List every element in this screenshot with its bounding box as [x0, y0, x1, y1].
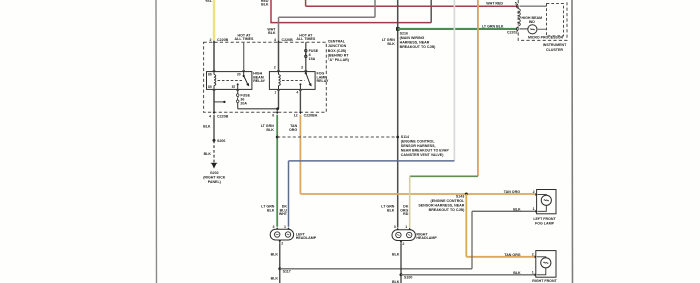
- svg-text:HARNESS, NEAR: HARNESS, NEAR: [400, 41, 430, 45]
- contact blade of high beam relay pins 30-87: [237, 72, 250, 90]
- svg-text:BLK: BLK: [203, 125, 211, 129]
- wire WHT RED high beam indicator feed to instrument cluster: [306, 0, 518, 6]
- svg-text:C220B: C220B: [282, 38, 294, 42]
- svg-text:2: 2: [210, 38, 212, 42]
- svg-text:1: 1: [405, 225, 407, 229]
- svg-text:BLK: BLK: [271, 276, 279, 280]
- node S100 splice: [400, 273, 413, 279]
- label HOT AT ALL TIMES left: [235, 34, 255, 42]
- svg-text:C220B: C220B: [217, 38, 229, 42]
- svg-text:TAN ORG: TAN ORG: [504, 253, 521, 257]
- svg-text:BLK: BLK: [204, 152, 212, 156]
- svg-text:BLK: BLK: [267, 208, 275, 212]
- svg-text:"A" PILLAR): "A" PILLAR): [328, 58, 350, 62]
- svg-text:3: 3: [301, 66, 303, 70]
- wire BLK run from S117 to left fog lamp return: [280, 268, 472, 270]
- lamp high beam indicator: [520, 16, 547, 34]
- svg-text:TAN ORG: TAN ORG: [504, 190, 521, 194]
- wire yellow coil lead inside CJB: [213, 42, 215, 71]
- wire WHT BLK from relay coil up and right to top edge: [267, 0, 375, 42]
- wire TAN ORG branch from S143 down to right fog lamp: [466, 194, 536, 257]
- wire YEL feed from top to CJB connector 2: [205, 0, 214, 40]
- svg-text:BLK: BLK: [261, 2, 269, 6]
- label LT GRN BLK at right headlamp: [381, 205, 395, 213]
- wire right page border line: [571, 0, 574, 283]
- svg-text:C2202: C2202: [507, 31, 518, 35]
- wire BLK run from S100 to right fog lamp return: [401, 274, 536, 276]
- svg-text:S143: S143: [456, 194, 464, 198]
- svg-text:S117: S117: [283, 270, 291, 274]
- fuse 8 15A: [305, 49, 319, 61]
- wire BLK from S117 to bottom edge: [271, 269, 280, 283]
- svg-text:BREAKOUT TO CJB): BREAKOUT TO CJB): [429, 208, 465, 212]
- node connector 2 C220B at CJB top: [210, 38, 229, 42]
- wire BLK dashed from S206 to ground: [204, 140, 214, 163]
- svg-text:IND: IND: [529, 20, 536, 24]
- svg-text:RD: RD: [403, 212, 409, 216]
- wire LT GRN BLK from CJB connector 6 to left headlamp pin 3: [261, 115, 278, 227]
- svg-text:CANISTER VENT VALVE): CANISTER VENT VALVE): [401, 153, 444, 157]
- label RIGHT HEADLAMP: [416, 232, 437, 240]
- node S216 splice on LT GRN BLK riser: [396, 27, 436, 49]
- svg-text:4: 4: [274, 38, 276, 42]
- svg-text:3: 3: [273, 225, 275, 229]
- svg-text:2: 2: [281, 241, 283, 245]
- svg-text:(MAIN WIRING: (MAIN WIRING: [400, 36, 425, 40]
- wire WHT pale riser from top edge down to blue run: [453, 0, 455, 161]
- svg-text:ALL TIMES: ALL TIMES: [235, 37, 255, 41]
- fuse 36 20A: [236, 94, 250, 106]
- svg-text:CLUSTER: CLUSTER: [546, 48, 563, 52]
- wire BLK from CJB connector 4 down to S206: [203, 115, 214, 141]
- wire fuse 36 output to junction with fog coil return: [238, 103, 277, 109]
- wire fog relay output down to CJB bottom edge: [299, 89, 301, 112]
- wire BLK left headlamp ground to S117: [271, 243, 280, 269]
- wire dark riser at x=431 from red run to top edge: [430, 0, 432, 23]
- svg-text:2: 2: [274, 66, 276, 70]
- svg-text:2: 2: [532, 252, 534, 256]
- wire relay 85 lead down inside CJB with stub: [214, 89, 226, 112]
- svg-text:C220BA: C220BA: [304, 113, 318, 117]
- svg-text:(RIGHT KICK: (RIGHT KICK: [203, 175, 226, 179]
- svg-text:2: 2: [402, 242, 404, 246]
- svg-text:C220B: C220B: [217, 114, 229, 118]
- micro processor dashed box: [528, 4, 564, 40]
- ground G202: [203, 163, 226, 184]
- svg-text:BLK: BLK: [387, 42, 395, 46]
- node connector 6 at CJB bottom: [272, 112, 278, 118]
- svg-text:INSTRUMENT: INSTRUMENT: [543, 43, 567, 47]
- svg-text:HEADLAMP: HEADLAMP: [296, 236, 317, 240]
- wire RED BLK feed from top, down and right to gray riser: [261, 0, 431, 23]
- svg-text:2: 2: [533, 190, 535, 194]
- svg-text:1: 1: [533, 207, 535, 211]
- svg-text:RELAY: RELAY: [253, 79, 265, 83]
- node S117 splice: [278, 267, 291, 273]
- node cluster pin 5 red entry: [515, 1, 518, 8]
- wire BLK right headlamp ground to S100: [392, 244, 401, 275]
- label DK BLU WHT at left headlamp: [279, 205, 288, 217]
- svg-text:85: 85: [208, 85, 212, 89]
- relay pin chevrons high beam relay: [213, 70, 245, 91]
- svg-text:JUNCTION: JUNCTION: [328, 44, 347, 48]
- svg-text:BOX (CJB): BOX (CJB): [328, 49, 347, 53]
- wire LT GRN BLK from S216 to instrument cluster: [398, 24, 517, 29]
- svg-text:RIGHT FRONT: RIGHT FRONT: [532, 279, 557, 283]
- node connector 12 C220BA at CJB bottom: [294, 112, 318, 118]
- central junction box CJB dashed outline: [204, 42, 327, 112]
- relay fog lamp relay box: [269, 72, 315, 90]
- svg-text:BLK: BLK: [266, 128, 274, 132]
- contact blade of fog lamp relay pins 3-4: [299, 72, 311, 90]
- wire fog relay coil return down inside CJB: [278, 89, 280, 108]
- node junction dot fuse36 output and coil return: [276, 107, 279, 110]
- dashed actuator link of high beam relay: [218, 79, 243, 81]
- label HOT AT ALL TIMES right: [296, 34, 316, 42]
- svg-text:S216: S216: [400, 31, 408, 35]
- node S206 splice: [213, 139, 226, 143]
- svg-text:4: 4: [296, 91, 298, 95]
- wire hot feed to relay pin 30 inside CJB: [243, 42, 245, 71]
- coil of fog lamp relay: [279, 74, 281, 85]
- wire DK ORG RD right low beam run from tan riser to right headlamp pin 1: [410, 176, 478, 228]
- svg-text:LEFT FRONT: LEFT FRONT: [533, 217, 556, 221]
- svg-text:15A: 15A: [309, 57, 316, 61]
- svg-text:BLK: BLK: [387, 208, 395, 212]
- svg-text:PANEL): PANEL): [208, 180, 222, 184]
- wire LT GRN BLK main riser from top edge down to right headlamp: [382, 0, 398, 228]
- svg-text:G202: G202: [210, 171, 219, 175]
- svg-text:BLK: BLK: [513, 271, 521, 275]
- svg-text:S100: S100: [404, 276, 412, 280]
- wire WHT BLK coil lead to fog relay pin 2 inside CJB: [278, 42, 280, 71]
- node S143 splice on fog feed: [418, 193, 467, 213]
- lamp right headlamp: [392, 225, 415, 246]
- wire junction down to CJB bottom edge: [276, 109, 278, 112]
- svg-text:WHT: WHT: [279, 212, 288, 216]
- label LT GRN BLK at left headlamp: [261, 205, 275, 213]
- svg-text:SENSOR HARNESS,: SENSOR HARNESS,: [401, 144, 436, 148]
- svg-text:MICRO PROCESSOR: MICRO PROCESSOR: [528, 36, 563, 40]
- svg-text:FOG LAMP: FOG LAMP: [535, 221, 555, 225]
- label CENTRAL JUNCTION BOX: [328, 40, 350, 62]
- svg-text:87: 87: [232, 85, 236, 89]
- svg-text:BLK: BLK: [513, 207, 521, 211]
- svg-text:4: 4: [209, 114, 211, 118]
- svg-text:30: 30: [237, 72, 241, 76]
- label LEFT FRONT FOG LAMP: [533, 217, 556, 226]
- svg-text:LT GRN BLK: LT GRN BLK: [482, 24, 504, 28]
- svg-text:(ENGINE CONTROL: (ENGINE CONTROL: [431, 199, 466, 203]
- label HIGH BEAM RELAY: [253, 72, 265, 84]
- svg-text:S114: S114: [401, 135, 409, 139]
- svg-text:HEADLAMP: HEADLAMP: [416, 236, 437, 240]
- coil of high beam relay: [214, 74, 216, 85]
- label relay bottom pins 1 and 4: [274, 91, 298, 95]
- svg-text:BLK: BLK: [271, 252, 279, 256]
- wire left page border line: [155, 0, 158, 283]
- instrument cluster dashed outline: [518, 0, 567, 40]
- svg-text:SENSOR HARNESS, NEAR: SENSOR HARNESS, NEAR: [418, 204, 464, 208]
- svg-text:YEL: YEL: [205, 0, 213, 3]
- svg-text:12: 12: [294, 113, 298, 117]
- node connector 4 C220B at CJB top: [274, 38, 293, 42]
- node cluster pin 3 green entry C2202: [507, 27, 518, 35]
- wire BLK return from left fog lamp down: [472, 207, 537, 268]
- svg-text:WHT RED: WHT RED: [486, 2, 503, 6]
- svg-text:BLK: BLK: [392, 252, 400, 256]
- node connector 4 C220B at CJB bottom left: [209, 112, 229, 119]
- connector scallops on cluster left edge: [518, 9, 520, 27]
- wire BLK from S100 to bottom edge: [392, 275, 401, 283]
- label INSTRUMENT CLUSTER: [543, 43, 567, 52]
- label DK ORG RD at right headlamp: [400, 205, 409, 217]
- svg-text:S206: S206: [217, 139, 225, 143]
- node S114 dashed splice tie between green wire and LT GRN BLK riser: [276, 135, 450, 157]
- svg-text:(ENGINE CONTROL: (ENGINE CONTROL: [401, 139, 436, 143]
- label LEFT HEADLAMP: [296, 232, 317, 240]
- relay high beam relay box: [207, 72, 252, 90]
- svg-text:6: 6: [272, 113, 274, 117]
- svg-text:1: 1: [274, 91, 276, 95]
- wire relay 87 lead down to fuse 36: [237, 89, 239, 93]
- svg-text:NEAR BREAKOUT TO EVAP: NEAR BREAKOUT TO EVAP: [401, 149, 450, 153]
- svg-text:(BEHIND RT: (BEHIND RT: [328, 53, 350, 57]
- svg-text:1: 1: [532, 270, 534, 274]
- dashed actuator link of fog lamp relay: [282, 79, 305, 81]
- wire TAN riser from top edge down to right low-beam run: [477, 0, 479, 176]
- wire hot feed through fuse 8 to fog relay pin 3: [305, 42, 307, 71]
- svg-text:RELAY: RELAY: [317, 79, 329, 83]
- relay pin chevrons fog lamp relay: [277, 70, 307, 91]
- lamp right front fog lamp: [532, 251, 556, 278]
- wire DK BLU WHT left low beam run from pale riser to left headlamp pin 1: [289, 161, 455, 227]
- svg-text:CENTRAL: CENTRAL: [328, 40, 346, 44]
- svg-text:BLK: BLK: [268, 31, 276, 35]
- svg-text:20A: 20A: [240, 102, 247, 106]
- label FOG LAMP RELAY: [317, 72, 329, 84]
- svg-text:ALL TIMES: ALL TIMES: [296, 37, 316, 41]
- svg-text:86: 86: [208, 72, 212, 76]
- svg-text:3: 3: [394, 225, 396, 229]
- svg-text:BREAKOUT TO CJB): BREAKOUT TO CJB): [400, 45, 436, 49]
- lamp left front fog lamp: [533, 190, 556, 214]
- svg-text:ORG: ORG: [289, 128, 297, 132]
- wire TAN ORG fog feed from CJB connector 12 down and right: [289, 115, 537, 194]
- lamp left headlamp: [270, 225, 293, 245]
- wire inside cluster from red entry to micro processor: [520, 5, 547, 7]
- svg-text:1: 1: [284, 225, 286, 229]
- label RIGHT FRONT FOG LAMP: [532, 279, 557, 283]
